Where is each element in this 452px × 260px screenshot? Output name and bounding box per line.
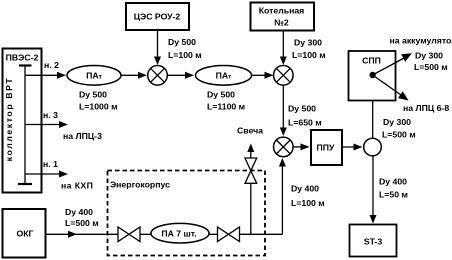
box ЦЭС РОУ-2 <box>126 3 189 30</box>
svg-text:Dy 500: Dy 500 <box>207 90 235 100</box>
wire valve1 to ПАт2 <box>167 72 194 79</box>
svg-text:L=50 м: L=50 м <box>379 190 408 200</box>
svg-text:Свеча: Свеча <box>237 126 263 136</box>
box ППУ <box>311 130 342 165</box>
wire н.3 branch <box>25 110 102 141</box>
svg-text:коллектор ВРТ: коллектор ВРТ <box>4 77 14 162</box>
wire to ЛПЦ 6-8 <box>373 75 450 113</box>
node (mixer circle) <box>364 138 382 156</box>
svg-text:L=100 м: L=100 м <box>168 50 202 60</box>
wire н.2 branch to ПАт <box>25 60 66 79</box>
apparatus ПА 7 шт. <box>151 223 209 243</box>
svg-text:на ЛПЦ-3: на ЛПЦ-3 <box>63 131 102 141</box>
svg-text:на КХП: на КХП <box>61 181 93 191</box>
box СПП <box>349 51 396 101</box>
vent valve (hourglass) <box>245 158 257 183</box>
wire pipe up to valve3 <box>279 158 325 234</box>
svg-text:Dy 500: Dy 500 <box>288 103 316 113</box>
apparatus ПАт 2 <box>196 66 252 112</box>
wire ЦЭС РОУ-2 down to valve <box>154 30 202 65</box>
svg-text:Котельная: Котельная <box>259 6 305 16</box>
wire to accumulator <box>373 35 452 75</box>
svg-text:ОКГ: ОКГ <box>17 229 34 239</box>
wire ПАт1 to valve1 <box>121 72 147 79</box>
svg-text:ПА 7 шт.: ПА 7 шт. <box>161 228 196 238</box>
svg-text:L=500 м: L=500 м <box>382 130 416 140</box>
svg-text:ST-3: ST-3 <box>364 237 383 247</box>
svg-text:ЦЭС РОУ-2: ЦЭС РОУ-2 <box>134 12 181 22</box>
wire ОКГ main pipe <box>46 207 282 238</box>
wire node down to ST-3 <box>370 156 408 224</box>
gate valve B1 <box>118 227 140 242</box>
svg-text:L=1000 м: L=1000 м <box>79 102 118 112</box>
apparatus ПАт 1 <box>67 66 121 112</box>
svg-text:Dy 300: Dy 300 <box>294 38 322 48</box>
svg-text:н. 2: н. 2 <box>44 60 59 70</box>
svg-text:Dy 300: Dy 300 <box>415 51 443 61</box>
svg-text:Dy 400: Dy 400 <box>379 176 407 186</box>
box ОКГ <box>3 209 46 258</box>
svg-text:Энергокорпус: Энергокорпус <box>110 180 170 190</box>
wire node up to СПП <box>369 78 416 140</box>
node dot in СПП <box>369 72 375 78</box>
wire valve3 to ППУ <box>293 143 309 150</box>
svg-text:н. 1: н. 1 <box>43 159 58 169</box>
svg-text:Dy 400: Dy 400 <box>65 207 93 217</box>
wire vent line (Свеча) <box>237 126 263 235</box>
valve V1 (circle-X) <box>148 66 168 86</box>
wire н.1 branch <box>25 159 93 191</box>
collector pipe <box>18 66 32 185</box>
svg-text:СПП: СПП <box>362 56 381 66</box>
svg-text:L=100 м: L=100 м <box>291 198 325 208</box>
svg-text:на ЛПЦ 6-8: на ЛПЦ 6-8 <box>403 103 449 113</box>
svg-text:L=500 м: L=500 м <box>414 62 448 72</box>
svg-text:L=100 м: L=100 м <box>292 50 326 60</box>
gate valve B2 <box>218 227 240 242</box>
svg-text:ППУ: ППУ <box>317 143 335 153</box>
box Котельная №2 <box>251 3 315 31</box>
svg-text:L=650 м: L=650 м <box>288 117 322 127</box>
enclosure Энергокорпус (dashed) <box>108 171 266 256</box>
svg-text:Dy 500: Dy 500 <box>79 90 107 100</box>
svg-text:ПВЭС-2: ПВЭС-2 <box>6 53 39 63</box>
svg-text:L=1100 м: L=1100 м <box>207 102 245 112</box>
svg-text:L=500 м: L=500 м <box>65 218 99 228</box>
valve V3 (circle-X) <box>274 137 294 157</box>
wire valve2 down to valve3 <box>280 85 322 136</box>
svg-text:Dy 500: Dy 500 <box>168 37 196 47</box>
wire ППУ to node <box>342 144 363 151</box>
box ST-3 <box>350 225 397 257</box>
box ПВЭС-2 (коллектор ВРТ) <box>3 49 42 193</box>
wire Котельная down to valve2 <box>280 31 326 66</box>
svg-text:№2: №2 <box>274 18 289 28</box>
svg-text:Dy 300: Dy 300 <box>383 117 411 127</box>
svg-text:н. 3: н. 3 <box>43 110 58 120</box>
wire ПАт2 to valve2 <box>252 72 274 79</box>
svg-text:Dy 400: Dy 400 <box>291 183 319 193</box>
valve V2 (circle-X) <box>274 66 294 86</box>
svg-text:на аккумулятор: на аккумулятор <box>390 35 452 45</box>
